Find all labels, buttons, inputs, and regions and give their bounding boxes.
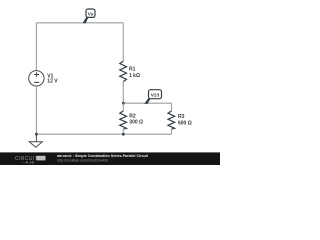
voltage source V1 — [29, 71, 44, 86]
node flag V23 pointer — [144, 98, 151, 104]
wire R1 bottom to middle node — [122, 82, 124, 104]
wire V1 bottom to ground node — [35, 86, 37, 134]
wire right vertical (top corner to R1) — [122, 23, 124, 61]
resistor R2 — [120, 111, 127, 129]
wire left vertical (top corner to V1 top) — [35, 23, 37, 71]
wire R2 top stub — [122, 103, 124, 111]
svg-text:R2: R2 — [129, 114, 136, 120]
middle wire horizontal V23 net — [123, 103, 171, 111]
svg-text:12 V: 12 V — [47, 79, 58, 85]
resistor R3 — [168, 111, 175, 129]
junction bottom node — [122, 133, 125, 136]
resistor R1 — [120, 61, 127, 81]
ground — [29, 134, 42, 147]
node flag V23 box — [149, 90, 162, 99]
svg-text:300 Ω: 300 Ω — [129, 120, 143, 126]
node flag Vs pointer — [83, 17, 89, 23]
wire top horizontal — [36, 22, 123, 24]
svg-text:—⏵LAB: —⏵LAB — [22, 160, 35, 164]
footer logo box — [36, 156, 45, 161]
svg-text:1 kΩ: 1 kΩ — [129, 73, 140, 79]
bottom wire horizontal — [36, 133, 171, 135]
svg-text:Vs: Vs — [88, 11, 94, 16]
node flag Vs box — [86, 9, 95, 17]
wire R3 bottom stub — [171, 129, 173, 134]
junction middle node — [122, 102, 125, 105]
svg-text:R1: R1 — [129, 66, 136, 72]
svg-text:R3: R3 — [178, 114, 185, 120]
svg-text:V23: V23 — [151, 93, 160, 99]
footer bar — [0, 152, 220, 165]
junction ground node — [35, 133, 38, 136]
svg-text:http://circuitlab.com/circuit/: http://circuitlab.com/circuit/3vx42k — [57, 158, 108, 162]
svg-text:600 Ω: 600 Ω — [178, 121, 192, 127]
svg-text:abrown1 : Simple Combination S: abrown1 : Simple Combination Series-Para… — [57, 154, 149, 158]
wire R2 bottom stub — [122, 129, 124, 134]
